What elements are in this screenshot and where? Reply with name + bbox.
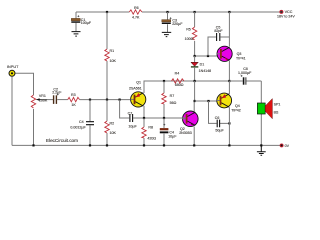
wire input to VR1 bbox=[15, 73, 33, 95]
wire output rail bbox=[144, 80, 229, 82]
svg-text:10µF: 10µF bbox=[168, 135, 177, 139]
wire C4el stems bbox=[163, 118, 165, 145]
node C5 tap bbox=[207, 55, 209, 57]
resistor R1 bbox=[105, 49, 109, 61]
svg-text:2SA561: 2SA561 bbox=[129, 87, 142, 91]
svg-text:R2: R2 bbox=[110, 121, 115, 125]
wire Q2 collector bbox=[193, 81, 195, 112]
svg-text:VR1: VR1 bbox=[39, 94, 46, 98]
node C6 right bbox=[228, 122, 230, 124]
capacitor C2 bbox=[52, 87, 62, 104]
wire VR1 bottom bbox=[33, 109, 35, 145]
node C4 bottom bbox=[89, 144, 91, 146]
node C3 top bbox=[166, 11, 168, 13]
node Q4 collector bottom bbox=[228, 144, 230, 146]
svg-text:TIP41: TIP41 bbox=[236, 57, 246, 61]
svg-text:0.0012µF: 0.0012µF bbox=[70, 125, 86, 129]
wire Q3 base bbox=[195, 55, 221, 57]
svg-text:R1: R1 bbox=[110, 49, 115, 53]
svg-text:C7: C7 bbox=[128, 112, 133, 116]
capacitor C3 bbox=[162, 17, 183, 26]
node Q2 emitter bottom bbox=[193, 144, 195, 146]
node R5 top bbox=[194, 11, 196, 13]
svg-text:420Ω: 420Ω bbox=[147, 137, 156, 141]
svg-text:D1: D1 bbox=[200, 62, 205, 66]
capacitor C6 50uF bbox=[217, 120, 219, 128]
svg-text:18V to 24V: 18V to 24V bbox=[277, 15, 295, 19]
wire C6 leads bbox=[209, 101, 230, 123]
node Q2 collector / Q4 base bbox=[194, 100, 196, 102]
node C4el top bbox=[163, 117, 165, 119]
transistor Q1 2SA561 bbox=[129, 81, 146, 107]
svg-text:82pF: 82pF bbox=[214, 29, 223, 33]
wire bottom rail bbox=[12, 144, 280, 146]
node C4 tap bbox=[89, 99, 91, 101]
resistor R8 bbox=[142, 127, 146, 138]
svg-text:C6: C6 bbox=[215, 116, 220, 120]
svg-text:C4: C4 bbox=[79, 120, 84, 124]
svg-text:VCC: VCC bbox=[285, 10, 293, 14]
node R2 bottom bbox=[106, 144, 108, 146]
wire C5 leads bbox=[208, 37, 229, 56]
transistor Q4 TIP42 bbox=[217, 93, 241, 112]
capacitor C1 bbox=[71, 15, 92, 25]
resistor R3 bbox=[68, 97, 80, 101]
svg-text:Q1: Q1 bbox=[136, 81, 141, 85]
svg-text:56Ω: 56Ω bbox=[170, 101, 177, 105]
node R1 top bbox=[106, 11, 108, 13]
wire C2 to R3 bbox=[57, 99, 67, 101]
node C6 tap bbox=[207, 100, 209, 102]
wire R1 stem bbox=[106, 12, 108, 100]
transistor Q3 TIP41 bbox=[217, 46, 246, 61]
wire C7 leads bbox=[120, 100, 144, 118]
wire Q1 collector down bbox=[143, 106, 145, 118]
node R8 top bbox=[143, 117, 145, 119]
wire C4 stem bbox=[89, 100, 91, 146]
resistor R6 bbox=[129, 10, 142, 14]
node D1 bottom bbox=[194, 80, 196, 82]
wire Q4 collector down bbox=[228, 107, 230, 145]
svg-text:1N4148: 1N4148 bbox=[199, 69, 212, 73]
svg-text:R6: R6 bbox=[134, 6, 139, 10]
svg-text:2.2µF: 2.2µF bbox=[52, 90, 62, 94]
wire R7 stems bbox=[163, 81, 165, 118]
svg-text:10µF: 10µF bbox=[128, 125, 137, 129]
wire Q1 emitter up bbox=[143, 81, 145, 93]
svg-text:Q3: Q3 bbox=[237, 52, 242, 56]
capacitor C5 bbox=[217, 33, 220, 41]
resistor R4 bbox=[172, 79, 185, 83]
capacitor C4 10uF electrolytic bbox=[160, 124, 177, 139]
svg-text:10K: 10K bbox=[110, 131, 117, 135]
svg-text:10K: 10K bbox=[110, 59, 117, 63]
svg-text:R4: R4 bbox=[175, 71, 180, 75]
transistor Q2 2N3053 bbox=[179, 111, 198, 135]
terminal 0V bbox=[280, 144, 283, 147]
svg-text:ElecCircuit.com: ElecCircuit.com bbox=[46, 138, 78, 143]
svg-text:2N3053: 2N3053 bbox=[179, 131, 192, 135]
svg-text:Q2: Q2 bbox=[180, 127, 185, 131]
svg-text:50µF: 50µF bbox=[215, 129, 224, 133]
svg-text:R5: R5 bbox=[186, 28, 191, 32]
wire R5 stem bbox=[194, 12, 196, 56]
potentiometer VR1 bbox=[31, 95, 35, 108]
node R8 bottom bbox=[143, 144, 145, 146]
node R1/R2 bbox=[106, 99, 108, 101]
svg-text:INPUT: INPUT bbox=[7, 65, 19, 69]
terminal VCC bbox=[280, 10, 283, 13]
capacitor C7 bbox=[130, 114, 133, 122]
wire C1 stem bbox=[75, 12, 77, 31]
svg-text:TIP42: TIP42 bbox=[231, 108, 241, 112]
svg-text:R7: R7 bbox=[170, 94, 175, 98]
svg-text:0V: 0V bbox=[285, 144, 290, 148]
svg-text:220µF: 220µF bbox=[172, 22, 183, 26]
wire Q4 base bbox=[195, 100, 221, 102]
svg-text:100K: 100K bbox=[39, 99, 48, 103]
node R7 top bbox=[163, 80, 165, 82]
node C7 tap bbox=[119, 99, 121, 101]
svg-text:1,000µF: 1,000µF bbox=[238, 71, 252, 75]
svg-text:8Ω: 8Ω bbox=[274, 111, 279, 115]
wire Q2 emitter bbox=[193, 127, 195, 146]
capacitor C4 0.0012uF bbox=[86, 122, 94, 125]
svg-text:SP1: SP1 bbox=[274, 103, 281, 107]
svg-text:4.7K: 4.7K bbox=[132, 16, 140, 20]
node C4el bottom bbox=[163, 144, 165, 146]
speaker SP1 bbox=[257, 99, 280, 119]
wire input down bbox=[11, 77, 13, 146]
node speaker bottom bbox=[260, 144, 262, 146]
ground under C3 bbox=[162, 32, 171, 36]
wire Q4 emitter up bbox=[228, 81, 230, 94]
wire R2 stem bbox=[106, 100, 108, 146]
resistor R2 bbox=[105, 121, 109, 133]
svg-text:1K: 1K bbox=[71, 103, 76, 107]
wire top VCC rail bbox=[76, 11, 280, 13]
diode D1 bbox=[194, 56, 196, 81]
capacitor C8 1000uF bbox=[229, 80, 261, 82]
wire Q3 collector bbox=[228, 12, 230, 47]
svg-text:R8: R8 bbox=[148, 126, 153, 130]
svg-text:680Ω: 680Ω bbox=[175, 83, 184, 87]
wire speaker line bbox=[260, 81, 262, 145]
node VR1 bottom bbox=[32, 144, 34, 146]
wire Q3 emitter bbox=[228, 61, 230, 81]
svg-text:R3: R3 bbox=[71, 93, 76, 97]
node output bbox=[228, 80, 230, 82]
wire Q2 base bbox=[144, 117, 186, 119]
node Q3 collector / rail bbox=[228, 11, 230, 13]
ground bottom right bbox=[257, 145, 266, 155]
resistor R7 bbox=[162, 93, 166, 104]
svg-text:100Ω: 100Ω bbox=[185, 37, 194, 41]
node D1 top bbox=[194, 55, 196, 57]
ground under C1 bbox=[72, 32, 81, 36]
resistor R5 bbox=[192, 27, 196, 40]
svg-text:100µF: 100µF bbox=[81, 21, 92, 25]
wire R8 stems bbox=[143, 118, 145, 145]
wire C3 stem bbox=[167, 12, 169, 32]
wire R3 to Q1 base bbox=[80, 99, 135, 101]
